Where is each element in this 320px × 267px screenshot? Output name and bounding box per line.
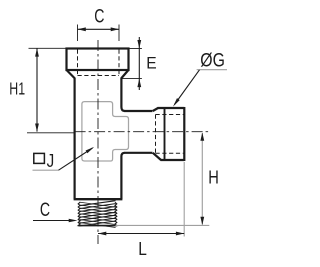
arrowhead ØG	[173, 98, 180, 107]
arrowhead C bottom	[69, 219, 78, 223]
svg-text:ØG: ØG	[200, 51, 225, 72]
internal bore outline	[82, 102, 129, 161]
side taper top	[153, 108, 158, 111]
extension line L right	[183, 162, 185, 237]
dimension line E	[138, 37, 140, 90]
label J square symbol	[34, 153, 45, 163]
body left edge	[73, 78, 75, 199]
vertical axis center line	[97, 40, 99, 244]
arrowhead H1 up	[35, 48, 39, 56]
side flange right edge	[183, 107, 185, 161]
side flange bottom edge	[161, 159, 185, 161]
leader line ØG	[175, 70, 200, 105]
arrowhead E up	[137, 79, 141, 88]
svg-text:H1: H1	[9, 79, 25, 99]
arrowhead L right	[176, 232, 184, 236]
dimension line L	[98, 233, 184, 235]
arrowhead H1 down	[35, 124, 39, 132]
side port thread depth dashed	[155, 115, 157, 154]
top port thread dashed right	[118, 50, 120, 76]
side taper bottom	[153, 153, 161, 160]
side neck top edge	[124, 110, 152, 112]
arrowhead L left	[98, 232, 106, 236]
arrowhead E down	[137, 40, 141, 49]
svg-text:J: J	[47, 151, 55, 171]
dimension line C top	[78, 28, 120, 30]
dimension line H	[201, 133, 203, 225]
body bottom edge	[74, 198, 123, 200]
svg-text:H: H	[208, 168, 219, 188]
extension line C left	[77, 25, 79, 42]
arrowhead C right	[111, 27, 119, 31]
leader line J	[59, 148, 93, 170]
horizontal axis center line	[75, 131, 210, 133]
leader line C bottom	[33, 220, 72, 222]
top taper left	[67, 70, 75, 78]
leader underline J	[33, 169, 59, 171]
arrowhead H down	[200, 217, 204, 225]
body right edge lower	[121, 153, 124, 199]
extension line stud end	[116, 224, 210, 226]
extension line C right	[118, 25, 120, 42]
side port thread dashed bottom	[156, 152, 185, 154]
body right edge upper	[121, 78, 124, 111]
male stud thread	[79, 201, 115, 206]
extension line H1 top	[29, 47, 67, 49]
side flange face line	[164, 109, 166, 159]
extension line E top	[129, 48, 142, 50]
arrowhead J	[86, 147, 95, 153]
dimension line H1	[36, 48, 38, 131]
svg-text:L: L	[138, 238, 147, 259]
side port thread dashed top	[156, 114, 185, 116]
top port nut rectangle	[67, 49, 129, 71]
side flange top edge	[158, 107, 185, 109]
leader underline ØG	[197, 69, 227, 71]
top taper right	[121, 70, 128, 78]
top port thread dashed left	[77, 50, 79, 76]
top port thread depth dashed	[78, 75, 120, 77]
svg-text:C: C	[40, 200, 50, 221]
side neck bottom edge	[124, 152, 152, 154]
arrowhead C left	[78, 27, 86, 31]
extension line H1 bottom / side axis left	[27, 132, 74, 134]
arrowhead H up	[200, 132, 204, 140]
svg-text:E: E	[146, 54, 156, 73]
svg-text:C: C	[94, 6, 104, 27]
extension line E bottom	[122, 78, 142, 80]
